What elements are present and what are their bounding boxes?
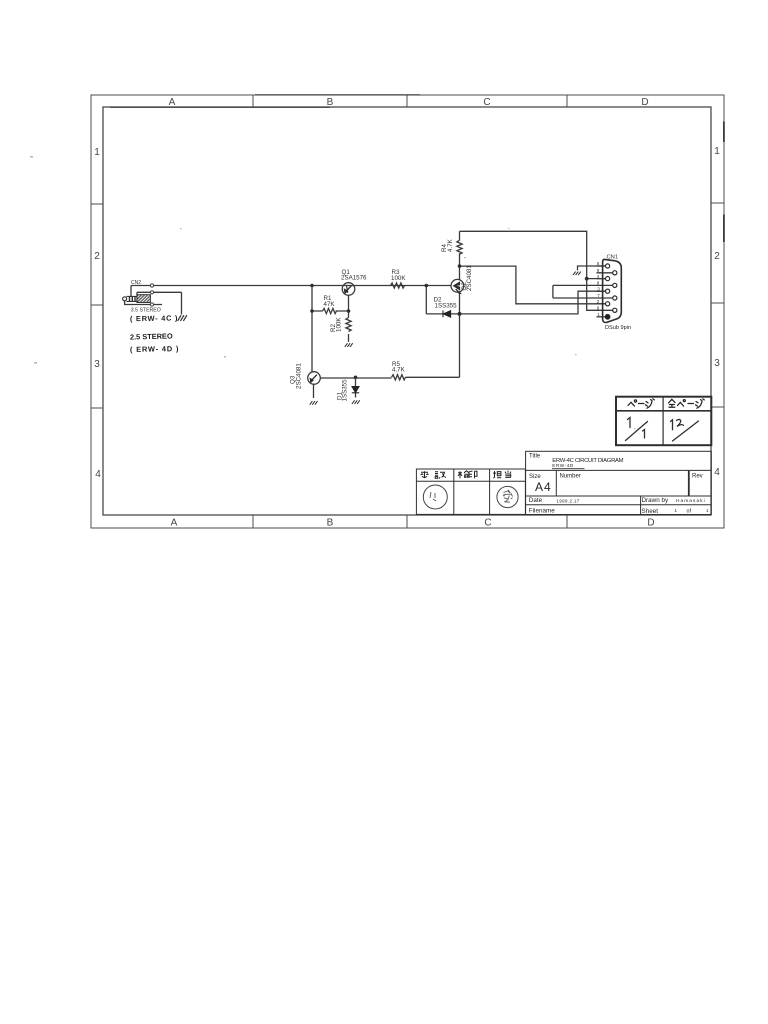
- svg-text:2SA1576: 2SA1576: [341, 275, 367, 282]
- svg-text:2: 2: [597, 299, 600, 304]
- svg-text:Rev: Rev: [692, 473, 703, 479]
- svg-text:4.7K: 4.7K: [447, 238, 454, 252]
- svg-text:3.5 STEREO: 3.5 STEREO: [131, 307, 161, 313]
- svg-text:A: A: [169, 97, 176, 108]
- svg-text:Sheet: Sheet: [642, 508, 659, 515]
- svg-text:1: 1: [706, 508, 709, 513]
- svg-text:4.7K: 4.7K: [392, 366, 406, 373]
- svg-text:3: 3: [94, 359, 100, 370]
- svg-text:of: of: [687, 508, 692, 514]
- svg-text:9: 9: [597, 268, 600, 273]
- svg-text:B: B: [327, 518, 334, 529]
- svg-text:( ERW- 4C ): ( ERW- 4C ): [130, 313, 178, 323]
- svg-text:B: B: [327, 97, 334, 108]
- svg-text:ERW-4D: ERW-4D: [552, 463, 574, 468]
- svg-text:1: 1: [94, 147, 100, 158]
- svg-text:4: 4: [95, 469, 101, 480]
- svg-text:1SS355: 1SS355: [342, 379, 349, 402]
- svg-text:C: C: [484, 518, 491, 529]
- svg-text:A: A: [171, 518, 178, 529]
- svg-text:3: 3: [714, 358, 720, 369]
- svg-text:A4: A4: [535, 480, 552, 494]
- svg-text:100K: 100K: [391, 275, 406, 282]
- svg-text:DSub 9pin: DSub 9pin: [605, 325, 631, 331]
- svg-text:7: 7: [597, 293, 600, 298]
- svg-text:4: 4: [714, 467, 720, 478]
- svg-text:1SS355: 1SS355: [435, 303, 458, 310]
- svg-text:2SC4081: 2SC4081: [296, 363, 303, 389]
- svg-text:Title: Title: [529, 454, 541, 460]
- svg-text:5: 5: [597, 261, 600, 266]
- svg-text:Date: Date: [529, 497, 543, 504]
- svg-text:D: D: [641, 97, 648, 108]
- svg-text:CN2: CN2: [131, 280, 141, 286]
- svg-text:2.5 STEREO: 2.5 STEREO: [130, 331, 173, 341]
- svg-text:6: 6: [597, 306, 600, 311]
- svg-text:1999.2.17: 1999.2.17: [557, 498, 580, 503]
- svg-text:2: 2: [714, 251, 720, 262]
- svg-text:Number: Number: [560, 474, 581, 480]
- svg-text:8: 8: [597, 281, 600, 286]
- svg-text:2SC4081: 2SC4081: [466, 265, 473, 291]
- svg-text:3: 3: [597, 287, 600, 292]
- svg-text:CN1: CN1: [607, 254, 619, 260]
- svg-text:1: 1: [714, 146, 720, 157]
- svg-text:Filename: Filename: [529, 508, 555, 515]
- svg-text:Drawn by: Drawn by: [642, 497, 669, 504]
- svg-text:1: 1: [597, 312, 600, 317]
- svg-text:Hamasaki: Hamasaki: [676, 498, 706, 504]
- svg-text:D: D: [647, 518, 654, 529]
- svg-text:2: 2: [94, 251, 100, 262]
- svg-text:47K: 47K: [324, 301, 336, 308]
- svg-text:1: 1: [675, 508, 678, 513]
- svg-text:100K: 100K: [336, 317, 343, 332]
- svg-text:( ERW- 4D ): ( ERW- 4D ): [130, 344, 179, 354]
- svg-text:C: C: [483, 97, 490, 108]
- svg-text:4: 4: [597, 274, 600, 279]
